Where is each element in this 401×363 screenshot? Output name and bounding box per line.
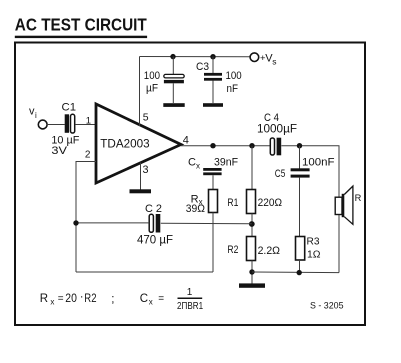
wire C4 to speaker [281,146,339,198]
svg-text:100: 100 [226,70,242,82]
svg-text:100: 100 [144,70,160,82]
svg-text:5: 5 [143,112,149,124]
op-amp U1 TDA2003 [96,104,181,183]
svg-text:i: i [35,111,37,120]
junction dot rail/100uF [170,54,175,59]
junction dot rail/C3 [210,54,215,59]
svg-text:TDA2003: TDA2003 [100,137,150,151]
svg-text:S - 3205: S - 3205 [310,301,344,311]
svg-text:R2: R2 [84,293,96,305]
svg-text:R: R [355,193,362,203]
svg-text:x: x [149,298,153,307]
ground bus wire [252,271,339,274]
svg-text:470 µF: 470 µF [137,235,173,247]
svg-text:C 2: C 2 [145,203,162,215]
svg-text:nF: nF [227,83,239,95]
svg-text:C 4: C 4 [264,112,279,124]
svg-text:µF: µF [146,83,158,95]
junction dot R3/bus [297,270,302,275]
wire R1 to R2 [251,214,253,237]
wire 100uF to ground [172,83,174,103]
wire Cx to Rx [212,175,214,189]
svg-text:100nF: 100nF [302,157,335,169]
junction dot R2/bus [249,269,254,274]
speaker R wire down [338,215,340,273]
svg-text:1: 1 [187,287,193,298]
ground under C3 [203,103,223,107]
node +Vs terminal [250,53,259,62]
ground under pin3 [130,189,152,193]
wire dot to 100uF [172,57,174,75]
svg-text:x: x [50,298,54,307]
svg-text:C1: C1 [62,102,77,114]
wire input to C1 [47,124,65,126]
svg-text:220Ω: 220Ω [258,197,282,209]
junction dot pin2/C2 [73,220,78,225]
svg-text:1: 1 [86,116,91,127]
border frame [15,43,365,326]
svg-text:3: 3 [143,164,149,176]
svg-text:39nF: 39nF [214,157,238,169]
svg-text:=: = [158,294,164,305]
svg-text:C5: C5 [275,168,286,180]
svg-text:R1: R1 [227,197,238,209]
svg-text:=: = [58,294,64,305]
wire C3 to ground [212,81,214,104]
wire supply rail [140,56,251,58]
wire C1 to pin1 [75,124,96,126]
wire C5 to R3 [299,178,301,237]
wire R2 to ground bus [251,261,253,284]
ground under R2 [239,283,265,287]
wire R1 top stem [251,146,253,190]
wire output pin4 [181,145,270,147]
wire R3 to bus [299,260,301,273]
speaker R [335,197,342,214]
svg-text:AC TEST CIRCUIT: AC TEST CIRCUIT [15,14,147,34]
svg-text:C: C [140,293,148,305]
svg-text:3V: 3V [51,145,67,157]
wire pin5 to supply rail [139,57,141,127]
svg-text:C3: C3 [196,61,209,73]
svg-text:;: ; [111,294,114,306]
svg-text:x: x [196,162,200,171]
wire Rx to bottom [212,213,214,273]
svg-text:R: R [40,293,48,305]
wire dot to C3 [212,57,214,74]
svg-text:R2: R2 [227,244,238,256]
svg-text:39Ω: 39Ω [186,203,205,215]
wire feedback node to C2 [161,222,252,225]
svg-text:R3: R3 [307,237,320,248]
svg-text:2: 2 [85,150,91,161]
junction dot output/Cx [210,143,215,148]
wire pin2 to left column [76,162,96,273]
junction dot output/C5 [297,143,302,148]
junction dot feedback node [249,221,255,227]
svg-text:4: 4 [183,135,189,147]
svg-text:20: 20 [65,293,77,305]
svg-text:1000µF: 1000µF [257,124,297,136]
svg-text:2.2Ω: 2.2Ω [258,245,280,257]
svg-text:C: C [188,156,196,168]
svg-text:s: s [272,57,276,67]
wire C2 to pin2 junction [76,222,149,224]
ground under 100uF [163,103,184,107]
wire pin3 to ground [140,163,142,190]
junction dot output/R1 [249,143,254,148]
svg-text:1Ω: 1Ω [307,250,321,261]
wire dot to C5 [299,146,301,169]
wire bottom left loop [76,271,213,273]
svg-text:·: · [80,291,84,303]
svg-text:2ΠBR1: 2ΠBR1 [177,301,203,312]
